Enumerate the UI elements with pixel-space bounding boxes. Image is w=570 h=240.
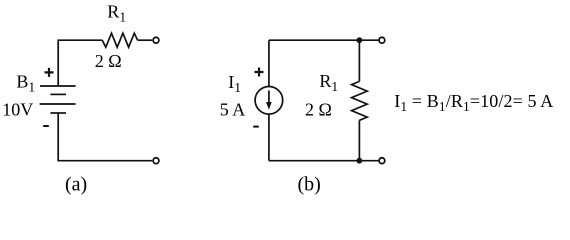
- wire: right branch lower (b): [358, 120, 360, 160]
- svg-text:10V: 10V: [2, 100, 33, 120]
- wire: circuit (a) left corner from battery top up and right to resistor: [58, 40, 102, 86]
- svg-text:2 Ω: 2 Ω: [305, 100, 332, 120]
- node: open terminal top-right (a): [153, 37, 159, 43]
- junction dot bottom (b): [357, 158, 363, 164]
- polarity minus sign (battery): [43, 125, 49, 127]
- wire: left branch lower (b): [268, 114, 270, 161]
- svg-text:(a): (a): [65, 174, 87, 196]
- svg-text:5 A: 5 A: [220, 100, 246, 120]
- svg-text:(b): (b): [298, 174, 321, 196]
- wire: bottom rail (b): [269, 160, 379, 162]
- battery B1 plate long top: [40, 85, 76, 87]
- polarity plus sign (current source): [255, 68, 264, 77]
- polarity minus sign (current source): [253, 126, 259, 128]
- svg-text:2 Ω: 2 Ω: [95, 51, 122, 71]
- resistor R1 (circuit b, vertical zigzag): [352, 81, 368, 120]
- wire: right branch upper (b): [358, 40, 360, 81]
- battery B1 plate long lower: [40, 103, 76, 105]
- wire: left branch upper (b): [268, 40, 270, 86]
- junction dot top (b): [357, 37, 363, 43]
- wire: battery bottom down and right to terminal (a): [58, 113, 152, 161]
- wire: circuit (b) top rail: [269, 39, 379, 41]
- wire: resistor to top-right terminal (a): [138, 39, 153, 41]
- current source I1 circle: [255, 87, 283, 115]
- svg-text:I1 = B1/R1=10/2= 5 A: I1 = B1/R1=10/2= 5 A: [394, 91, 553, 114]
- resistor R1 (circuit a, horizontal zigzag): [102, 33, 137, 47]
- battery B1 plate short upper: [50, 93, 66, 95]
- current source I1 arrow (downward): [268, 91, 270, 104]
- svg-text:R1: R1: [107, 1, 126, 24]
- node: open terminal top-right (b): [379, 37, 385, 43]
- svg-text:B1: B1: [16, 72, 35, 95]
- polarity plus sign (battery): [45, 68, 54, 77]
- battery B1 plate short bottom: [50, 112, 66, 114]
- node: open terminal bottom-right (a): [153, 158, 159, 164]
- svg-text:R1: R1: [319, 71, 338, 94]
- node: open terminal bottom-right (b): [379, 158, 385, 164]
- svg-text:I1: I1: [228, 72, 241, 95]
